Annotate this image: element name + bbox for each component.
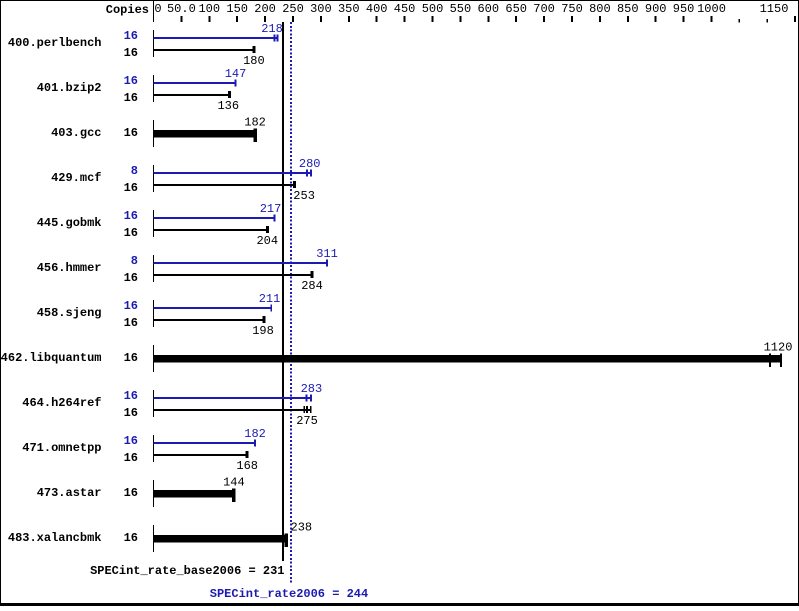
svg-text:SPECint_rate2006 = 244: SPECint_rate2006 = 244 bbox=[210, 587, 368, 601]
svg-text:200: 200 bbox=[254, 2, 276, 16]
y axis line top bbox=[153, 1, 154, 22]
svg-text:280: 280 bbox=[299, 157, 321, 171]
svg-text:16: 16 bbox=[124, 46, 138, 60]
svg-text:100: 100 bbox=[198, 2, 220, 16]
svg-text:50.0: 50.0 bbox=[167, 2, 196, 16]
svg-text:700: 700 bbox=[533, 2, 555, 16]
svg-text:16: 16 bbox=[124, 389, 138, 403]
svg-text:16: 16 bbox=[124, 451, 138, 465]
svg-text:450: 450 bbox=[394, 2, 416, 16]
chart frame border bbox=[0, 0, 799, 1]
svg-text:16: 16 bbox=[124, 29, 138, 43]
svg-text:400.perlbench: 400.perlbench bbox=[8, 36, 102, 50]
svg-text:950: 950 bbox=[673, 2, 695, 16]
svg-text:1000: 1000 bbox=[697, 2, 726, 16]
svg-text:8: 8 bbox=[131, 254, 138, 268]
svg-text:500: 500 bbox=[422, 2, 444, 16]
svg-text:204: 204 bbox=[256, 234, 278, 248]
svg-text:284: 284 bbox=[301, 279, 323, 293]
svg-text:473.astar: 473.astar bbox=[37, 486, 102, 500]
svg-text:275: 275 bbox=[296, 414, 318, 428]
svg-text:182: 182 bbox=[244, 116, 266, 130]
svg-text:900: 900 bbox=[645, 2, 667, 16]
SPECint_rate_base2006 reference line (231) bbox=[282, 22, 284, 561]
svg-text:168: 168 bbox=[236, 459, 258, 473]
svg-text:483.xalancbmk: 483.xalancbmk bbox=[8, 531, 102, 545]
svg-text:16: 16 bbox=[124, 91, 138, 105]
svg-text:401.bzip2: 401.bzip2 bbox=[37, 81, 102, 95]
svg-text:8: 8 bbox=[131, 164, 138, 178]
svg-text:445.gobmk: 445.gobmk bbox=[37, 216, 102, 230]
svg-text:147: 147 bbox=[225, 67, 247, 81]
svg-text:464.h264ref: 464.h264ref bbox=[22, 396, 101, 410]
svg-text:Copies: Copies bbox=[106, 3, 149, 17]
svg-text:750: 750 bbox=[561, 2, 583, 16]
svg-text:16: 16 bbox=[124, 271, 138, 285]
svg-text:550: 550 bbox=[450, 2, 472, 16]
SPECint_rate2006 reference line (244, dotted) bbox=[290, 22, 292, 583]
svg-text:0: 0 bbox=[154, 2, 161, 16]
svg-text:211: 211 bbox=[259, 292, 281, 306]
svg-text:16: 16 bbox=[124, 126, 138, 140]
svg-text:SPECint_rate_base2006 = 231: SPECint_rate_base2006 = 231 bbox=[90, 564, 284, 578]
svg-text:1150: 1150 bbox=[760, 2, 789, 16]
svg-text:400: 400 bbox=[366, 2, 388, 16]
svg-text:182: 182 bbox=[244, 427, 266, 441]
svg-text:144: 144 bbox=[223, 476, 245, 490]
svg-text:198: 198 bbox=[252, 324, 274, 338]
svg-text:16: 16 bbox=[124, 531, 138, 545]
svg-text:16: 16 bbox=[124, 226, 138, 240]
svg-text:16: 16 bbox=[124, 486, 138, 500]
svg-text:16: 16 bbox=[124, 434, 138, 448]
svg-text:218: 218 bbox=[261, 22, 283, 36]
svg-text:253: 253 bbox=[293, 189, 315, 203]
svg-text:462.libquantum: 462.libquantum bbox=[1, 351, 102, 365]
svg-text:283: 283 bbox=[301, 382, 323, 396]
svg-text:150: 150 bbox=[226, 2, 248, 16]
svg-text:1120: 1120 bbox=[764, 341, 793, 355]
svg-text:238: 238 bbox=[291, 521, 313, 535]
svg-text:16: 16 bbox=[124, 209, 138, 223]
svg-text:217: 217 bbox=[260, 202, 282, 216]
svg-text:300: 300 bbox=[310, 2, 332, 16]
svg-text:16: 16 bbox=[124, 181, 138, 195]
svg-text:180: 180 bbox=[243, 54, 265, 68]
svg-text:16: 16 bbox=[124, 316, 138, 330]
svg-text:800: 800 bbox=[589, 2, 611, 16]
svg-text:429.mcf: 429.mcf bbox=[51, 171, 101, 185]
svg-text:350: 350 bbox=[338, 2, 360, 16]
svg-text:16: 16 bbox=[124, 299, 138, 313]
svg-text:650: 650 bbox=[505, 2, 527, 16]
svg-text:403.gcc: 403.gcc bbox=[51, 126, 101, 140]
svg-text:471.omnetpp: 471.omnetpp bbox=[22, 441, 101, 455]
svg-text:250: 250 bbox=[282, 2, 304, 16]
svg-text:456.hmmer: 456.hmmer bbox=[37, 261, 102, 275]
svg-text:136: 136 bbox=[217, 99, 239, 113]
svg-text:458.sjeng: 458.sjeng bbox=[37, 306, 102, 320]
svg-text:16: 16 bbox=[124, 74, 138, 88]
svg-text:16: 16 bbox=[124, 406, 138, 420]
svg-text:850: 850 bbox=[617, 2, 639, 16]
svg-text:600: 600 bbox=[477, 2, 499, 16]
svg-text:16: 16 bbox=[124, 351, 138, 365]
x axis tick marks bbox=[180, 16, 182, 22]
svg-text:311: 311 bbox=[316, 247, 338, 261]
